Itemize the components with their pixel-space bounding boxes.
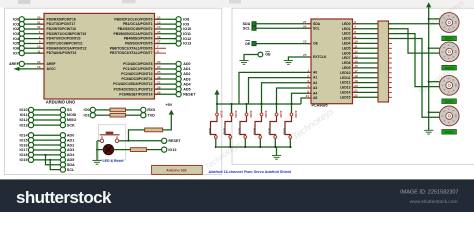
svg-text:IO12: IO12 — [20, 118, 28, 122]
svg-text:IO2: IO2 — [13, 27, 19, 31]
svg-text:SDA: SDA — [243, 22, 251, 26]
svg-text:shutterstock: shutterstock — [16, 188, 112, 207]
svg-text:OE: OE — [245, 42, 251, 46]
svg-text:LED5: LED5 — [342, 46, 351, 50]
svg-text:220R: 220R — [220, 111, 224, 119]
svg-text:PB4/MISO/PCINT4: PB4/MISO/PCINT4 — [124, 37, 153, 41]
svg-text:IO13: IO13 — [20, 123, 28, 127]
svg-text:AD0: AD0 — [183, 62, 190, 66]
svg-text:IO14: IO14 — [20, 133, 29, 137]
svg-text:AD3: AD3 — [183, 77, 190, 81]
svg-text:SERVO: SERVO — [445, 99, 454, 103]
svg-text:PC1/ADC1/PCINT9: PC1/ADC1/PCINT9 — [123, 67, 152, 71]
svg-text:GND: GND — [223, 128, 227, 136]
svg-text:LED9: LED9 — [342, 66, 351, 70]
svg-text:AREF: AREF — [9, 62, 20, 66]
svg-text:PB7/TOSC2/XTAL2/PCINT7: PB7/TOSC2/XTAL2/PCINT7 — [110, 51, 153, 55]
svg-text:AD0: AD0 — [67, 133, 74, 137]
svg-text:PD4/T0/XCK/PCINT20: PD4/T0/XCK/PCINT20 — [47, 37, 81, 41]
svg-text:PB2/SS/OC1B/PCINT2: PB2/SS/OC1B/PCINT2 — [118, 27, 153, 31]
svg-text:GND: GND — [238, 128, 242, 136]
svg-text:25: 25 — [303, 53, 307, 57]
svg-text:IO13: IO13 — [183, 42, 191, 46]
svg-text:PC5/ADC5/SCL/PCINT13: PC5/ADC5/SCL/PCINT13 — [114, 87, 153, 91]
svg-text:www.shutterstock.com: www.shutterstock.com — [410, 199, 458, 205]
svg-text:A1: A1 — [313, 76, 317, 80]
svg-text:LED12: LED12 — [340, 81, 351, 85]
svg-text:AD4: AD4 — [183, 82, 191, 86]
svg-text:LED7: LED7 — [342, 56, 351, 60]
svg-text:IO15: IO15 — [20, 138, 28, 142]
svg-text:PC0/ADC0/PCINT8: PC0/ADC0/PCINT8 — [123, 62, 152, 66]
svg-text:IO19: IO19 — [20, 158, 28, 162]
svg-text:PC2/ADC2/PCINT10: PC2/ADC2/PCINT10 — [121, 72, 152, 76]
svg-text:IO1: IO1 — [13, 22, 19, 26]
svg-text:SCL: SCL — [243, 26, 251, 30]
svg-text:IO11: IO11 — [20, 113, 28, 117]
svg-text:IO10: IO10 — [183, 27, 191, 31]
svg-text:PC3/ADC3/PCINT11: PC3/ADC3/PCINT11 — [121, 77, 152, 81]
svg-text:IO8: IO8 — [183, 18, 189, 22]
svg-text:SCK: SCK — [67, 123, 75, 127]
svg-text:A4: A4 — [313, 91, 317, 95]
svg-text:AD1: AD1 — [67, 138, 74, 142]
svg-text:AD5: AD5 — [183, 87, 190, 91]
svg-text:IO12: IO12 — [183, 37, 191, 41]
svg-text:SS: SS — [67, 108, 72, 112]
svg-text:IO3: IO3 — [13, 32, 19, 36]
svg-text:IO11: IO11 — [183, 32, 191, 36]
svg-text:A0: A0 — [313, 71, 317, 75]
svg-text:AD1: AD1 — [183, 67, 190, 71]
svg-text:SCL: SCL — [313, 26, 320, 30]
svg-text:PD3/INT1/OC2B/PCINT19: PD3/INT1/OC2B/PCINT19 — [47, 32, 87, 36]
svg-text:PD2/INT0/PCINT18: PD2/INT0/PCINT18 — [47, 27, 76, 31]
svg-text:LED15: LED15 — [340, 95, 351, 99]
svg-text:GND: GND — [253, 128, 257, 136]
svg-text:RESET: RESET — [183, 92, 196, 96]
svg-text:LED14: LED14 — [340, 91, 351, 95]
svg-text:LED11: LED11 — [340, 76, 350, 80]
svg-text:IO6: IO6 — [13, 46, 19, 50]
svg-text:26: 26 — [303, 24, 307, 28]
svg-text:Arduino 328: Arduino 328 — [166, 169, 186, 173]
svg-text:A5: A5 — [313, 96, 317, 100]
svg-text:LED6: LED6 — [342, 51, 351, 55]
svg-text:LED & Reset: LED & Reset — [103, 159, 125, 163]
svg-text:220R: 220R — [264, 111, 268, 119]
svg-text:MISO: MISO — [67, 118, 77, 122]
svg-text:OE: OE — [265, 53, 271, 57]
svg-text:PB5/SCK/PCINT5: PB5/SCK/PCINT5 — [125, 42, 152, 46]
svg-text:IO1: IO1 — [84, 113, 90, 117]
svg-text:IO9: IO9 — [183, 22, 189, 26]
svg-text:LED3: LED3 — [342, 37, 351, 41]
svg-text:SERVO: SERVO — [445, 37, 454, 41]
svg-text:LED10: LED10 — [340, 71, 351, 75]
svg-text:AD3: AD3 — [67, 148, 74, 152]
svg-text:MOSI: MOSI — [67, 113, 76, 117]
svg-text:Adafruit 16-channel Pwm Servo: Adafruit 16-channel Pwm Servo Adafruit S… — [209, 170, 292, 174]
svg-text:ARDUINO UNO: ARDUINO UNO — [46, 99, 76, 104]
svg-text:AD2: AD2 — [183, 72, 190, 76]
svg-text:IO5: IO5 — [13, 42, 19, 46]
svg-text:GND: GND — [283, 128, 287, 136]
svg-text:GND: GND — [208, 128, 212, 136]
svg-text:23: 23 — [303, 40, 307, 44]
svg-text:220R: 220R — [294, 111, 298, 119]
svg-text:EXTCLK: EXTCLK — [313, 55, 327, 59]
svg-text:LED4: LED4 — [342, 42, 351, 46]
svg-text:SCL: SCL — [67, 168, 75, 172]
svg-text:SERVO: SERVO — [445, 130, 454, 134]
svg-text:7: 7 — [157, 44, 159, 48]
svg-text:TXD: TXD — [147, 113, 155, 117]
svg-text:8: 8 — [157, 49, 159, 53]
svg-text:LED13: LED13 — [340, 86, 351, 90]
svg-text:PD7/AIN1/PCINT23: PD7/AIN1/PCINT23 — [47, 51, 77, 55]
svg-text:+5V: +5V — [166, 103, 173, 107]
svg-text:PB6/TOSC1/XTAL1/PCINT6: PB6/TOSC1/XTAL1/PCINT6 — [110, 46, 153, 50]
svg-text:27: 27 — [303, 20, 307, 24]
svg-text:AD5: AD5 — [67, 158, 74, 162]
svg-text:SDA: SDA — [67, 163, 75, 167]
svg-text:220R: 220R — [249, 111, 253, 119]
svg-text:PCA9685: PCA9685 — [312, 103, 328, 107]
svg-text:IO13: IO13 — [168, 148, 176, 152]
svg-text:220R: 220R — [234, 111, 238, 119]
svg-text:IO0: IO0 — [13, 18, 19, 22]
svg-text:IO16: IO16 — [20, 143, 28, 147]
svg-text:IO17: IO17 — [20, 148, 28, 152]
svg-text:IMAGE ID: 2251582307: IMAGE ID: 2251582307 — [400, 189, 458, 195]
svg-text:PD5/T1/OC0B/PCINT21: PD5/T1/OC0B/PCINT21 — [47, 42, 83, 46]
svg-text:SERVO: SERVO — [445, 66, 454, 70]
svg-text:A3: A3 — [313, 86, 317, 90]
svg-text:PD0/RXD/PCINT16: PD0/RXD/PCINT16 — [47, 17, 76, 21]
svg-text:AD2: AD2 — [67, 143, 74, 147]
svg-text:PB0/ICP1/CLKO/PCINT0: PB0/ICP1/CLKO/PCINT0 — [114, 17, 152, 21]
svg-text:LED2: LED2 — [342, 32, 351, 36]
svg-text:IO10: IO10 — [20, 108, 28, 112]
svg-text:IO0: IO0 — [84, 108, 90, 112]
svg-text:RXD: RXD — [147, 108, 155, 112]
svg-text:AREF: AREF — [47, 62, 56, 66]
svg-text:AVCC: AVCC — [47, 67, 57, 71]
svg-text:PB1/OC1A/PCINT1: PB1/OC1A/PCINT1 — [123, 22, 153, 26]
svg-text:IO18: IO18 — [20, 153, 28, 157]
svg-text:LED8: LED8 — [342, 61, 351, 65]
svg-text:PB3/MOSI/OC2A/PCINT3: PB3/MOSI/OC2A/PCINT3 — [113, 32, 152, 36]
svg-text:A2: A2 — [313, 81, 317, 85]
svg-text:AD4: AD4 — [67, 153, 75, 157]
svg-text:GND: GND — [268, 128, 272, 136]
svg-text:IO7: IO7 — [13, 51, 19, 55]
svg-text:PD1/TXD/PCINT17: PD1/TXD/PCINT17 — [47, 22, 76, 26]
svg-text:PC6/RESET/PCINT14: PC6/RESET/PCINT14 — [119, 92, 152, 96]
svg-text:PD6/AIN0/OC0A/PCINT22: PD6/AIN0/OC0A/PCINT22 — [47, 46, 87, 50]
svg-text:OE: OE — [313, 42, 319, 46]
svg-text:PC4/ADC4/SDA/PCINT12: PC4/ADC4/SDA/PCINT12 — [113, 82, 152, 86]
svg-text:LED0: LED0 — [342, 22, 351, 26]
svg-text:RESET: RESET — [168, 139, 181, 143]
svg-text:SDA: SDA — [313, 22, 321, 26]
svg-text:220R: 220R — [279, 111, 283, 119]
svg-text:LED1: LED1 — [342, 27, 351, 31]
